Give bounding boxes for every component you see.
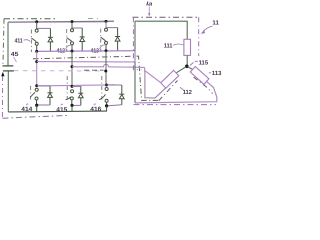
cell 415 loop top bbox=[72, 85, 81, 87]
wire: mid rail (tops-cells bottoms) bbox=[37, 50, 135, 53]
wire: phase2 drop to 112 bottom terminal (upper diagonal) bbox=[145, 67, 162, 83]
resistor 112 (rotated) bbox=[161, 70, 179, 88]
diode 416 bbox=[119, 85, 124, 105]
terminal bars of 45 (break symbol on left edge) bbox=[3, 65, 14, 67]
svg-text:414: 414 bbox=[21, 106, 33, 113]
node: phase1 junction col1 bbox=[35, 60, 38, 63]
wire: mid rail corner down into return vertical bbox=[134, 51, 136, 62]
node: mid rail junction col1 bbox=[35, 50, 38, 53]
box 11 dash-dot border bbox=[133, 17, 217, 104]
wire: long return vertical + bottom wire to 113 bbox=[134, 21, 136, 103]
wire: phase line 1 bbox=[37, 61, 135, 63]
dashed neutral line from terminal bars to col3 bbox=[14, 70, 106, 72]
svg-text:45: 45 bbox=[11, 51, 19, 58]
node: mid rail junction col3 bbox=[105, 49, 108, 52]
cell 414 loop top bbox=[37, 85, 50, 87]
node 115 (star point) bbox=[185, 65, 189, 69]
svg-text:411: 411 bbox=[15, 38, 24, 45]
switch 413 loop top bbox=[106, 27, 118, 29]
node: phase2 junction col2 bbox=[71, 65, 74, 68]
wire: 111 bottom to star node 115 bbox=[186, 55, 188, 66]
node: dashed line junction at col3 bbox=[104, 70, 107, 73]
diode 413 bbox=[115, 28, 120, 51]
switch 414 bbox=[30, 88, 38, 105]
wire col3 vertical mid bbox=[105, 51, 107, 85]
mechanical linkage dash-dot col2 bbox=[66, 29, 68, 52]
cell 414 loop bottom bbox=[37, 104, 50, 106]
wire col2 vertical upper bbox=[71, 22, 73, 29]
switch 411 loop top bbox=[37, 27, 51, 29]
resistor 113 (rotated) bbox=[190, 66, 209, 84]
svg-text:111: 111 bbox=[164, 43, 173, 50]
wire: node to resistor 112 bbox=[177, 67, 187, 73]
wire: feed line into box 11 to resistor 111 bbox=[135, 21, 187, 39]
svg-text:415: 415 bbox=[56, 107, 68, 114]
box 45 dash-dot border (left converter box) bbox=[2, 18, 100, 118]
wire: left bus down from top rail bbox=[7, 22, 9, 65]
switch 412 bbox=[67, 29, 74, 51]
mechanical linkage dash-dot col1 bbox=[30, 30, 32, 53]
diode 415 bbox=[78, 86, 83, 105]
node: top rail junction col2 bbox=[71, 20, 74, 23]
svg-text:113: 113 bbox=[212, 70, 222, 77]
node: bottom rail junction col1 bbox=[35, 84, 38, 87]
switch 412 loop top bbox=[72, 27, 82, 29]
wire: node to resistor 113 bbox=[188, 67, 194, 71]
wire: bottom DC rail bbox=[8, 110, 107, 113]
diode 412 bbox=[80, 28, 85, 51]
switch 416 bbox=[99, 88, 108, 107]
node + wire to bottom rail col3 bbox=[105, 104, 108, 107]
wire: lower path to 112 bottom terminal bbox=[145, 71, 166, 98]
svg-text:112: 112 bbox=[183, 89, 193, 96]
node: bottom rail junction col3 bbox=[105, 84, 108, 87]
wire: phase line 2 (with hop over col3) bbox=[72, 64, 145, 67]
node: top rail junction col3 bbox=[105, 20, 108, 23]
wire col3 vertical upper bbox=[105, 21, 107, 28]
mechanical linkage dash-dot col3 bbox=[100, 29, 102, 52]
diode 411 bbox=[48, 28, 53, 51]
svg-text:416: 416 bbox=[90, 106, 102, 113]
switch 415 bbox=[66, 90, 74, 106]
wire col2 vertical mid bbox=[71, 51, 73, 86]
wire: top DC rail bbox=[8, 21, 114, 22]
wire: left bus lower segment bbox=[7, 71, 9, 112]
node + wire to bottom rail col1 bbox=[35, 104, 38, 107]
cell 416 loop bottom bbox=[107, 105, 122, 106]
resistor 111 bbox=[184, 39, 191, 55]
switch 413 bbox=[101, 28, 108, 51]
diode 414 bbox=[48, 86, 53, 106]
cell 415 loop bottom bbox=[72, 104, 81, 106]
node: bottom rail junction col2 bbox=[71, 85, 74, 88]
switch 411 (contact with lever) bbox=[31, 29, 38, 51]
node: mid rail junction col2 bbox=[71, 50, 74, 53]
inter-row dash-dot boundary bbox=[33, 56, 159, 100]
svg-text:11: 11 bbox=[212, 20, 219, 27]
node: top rail junction col1 bbox=[35, 20, 38, 23]
node + wire to bottom rail col2 bbox=[70, 104, 73, 107]
label 45 leader arrow (black arrowhead on border) bbox=[1, 72, 4, 76]
svg-text:115: 115 bbox=[199, 59, 209, 66]
cell 416 loop top bbox=[107, 84, 122, 86]
wire col1 vertical mid bbox=[36, 51, 38, 86]
wire: bottom row top rail bbox=[37, 85, 115, 86]
wire col1 vertical upper bbox=[36, 22, 38, 29]
